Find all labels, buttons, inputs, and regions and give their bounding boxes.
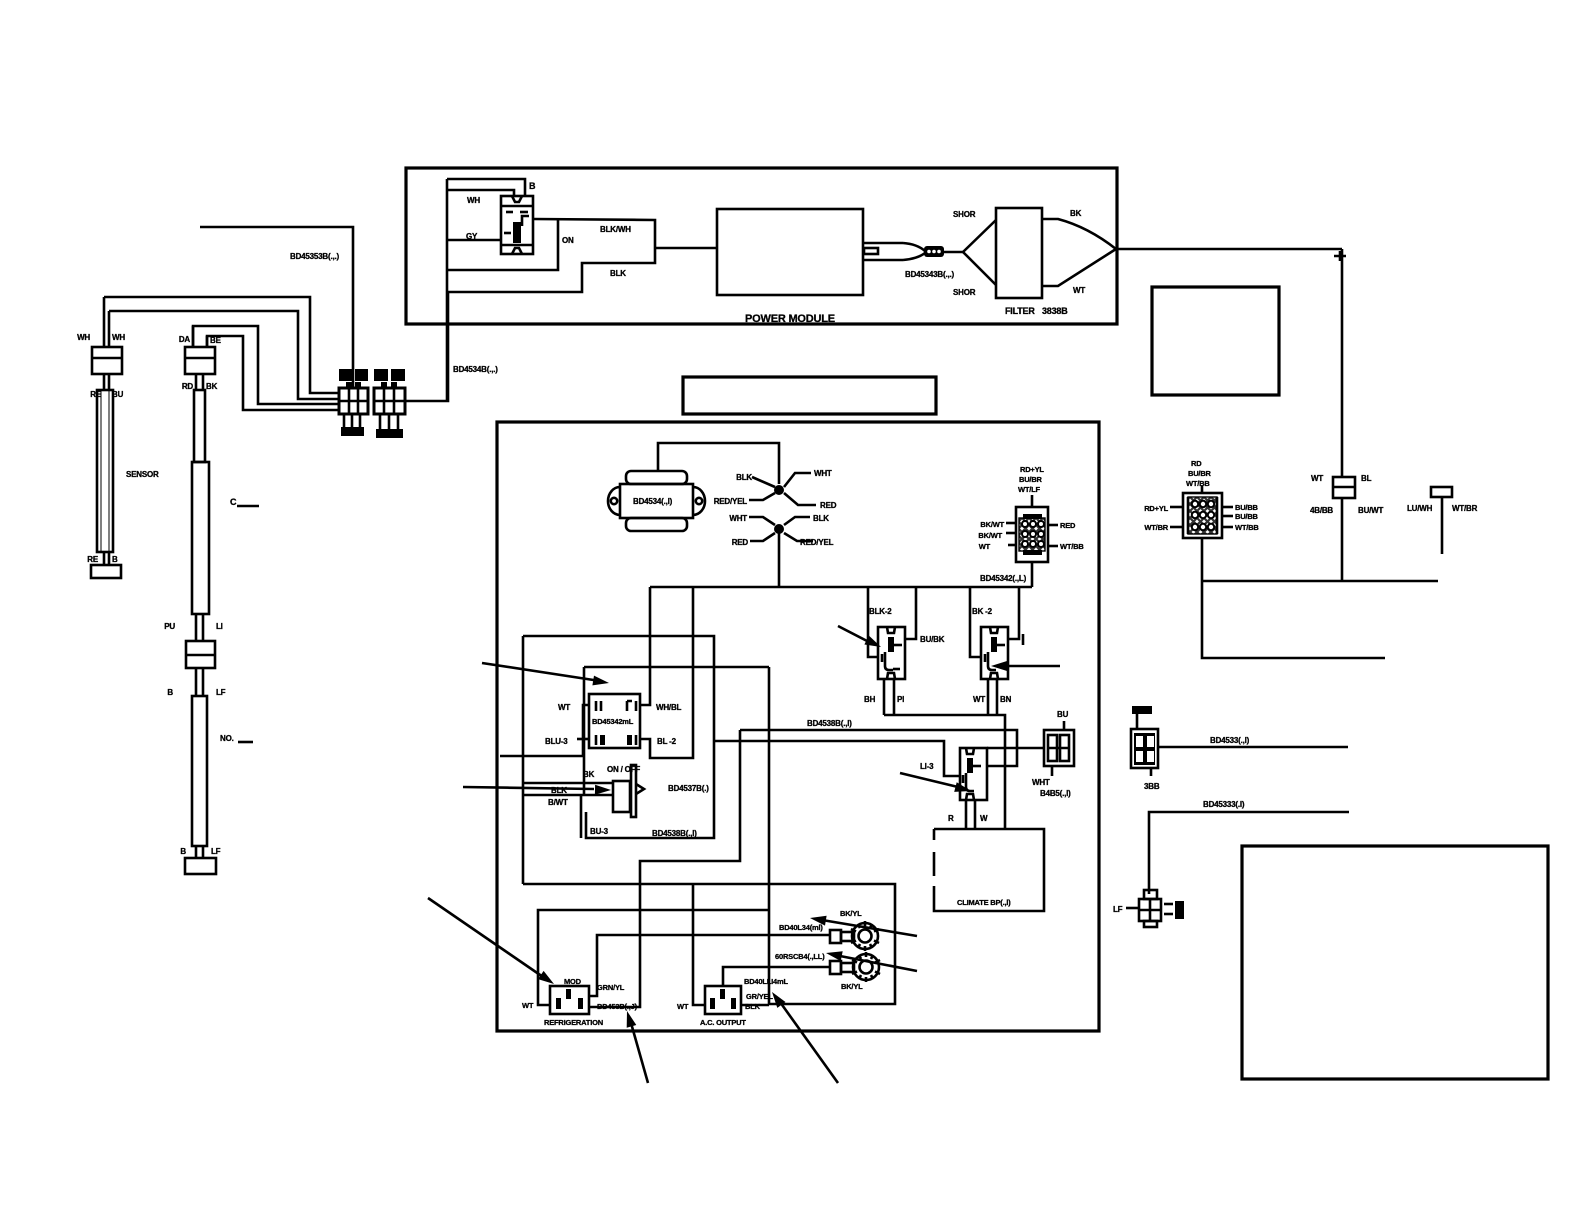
svg-text:LU/WH: LU/WH <box>1407 504 1433 513</box>
svg-text:WT: WT <box>979 542 991 551</box>
splice S1 (wire nuts) <box>749 473 816 505</box>
svg-text:BLK/WH: BLK/WH <box>600 225 631 234</box>
arrow to relay K2 <box>991 661 1060 671</box>
toggle switch SW1 <box>613 765 644 817</box>
wire: from switch loop down <box>768 667 771 1004</box>
svg-text:BD45333(.l): BD45333(.l) <box>1203 800 1245 809</box>
H2 left pins <box>1170 506 1183 509</box>
wire: breaker lower tap <box>447 220 558 270</box>
svg-text:BE: BE <box>210 336 222 345</box>
wire to split <box>944 251 963 254</box>
svg-text:BD45343B(.,.): BD45343B(.,.) <box>905 270 955 279</box>
wire split upper <box>963 220 996 252</box>
wire: feeder vertical inside top box <box>446 179 449 402</box>
svg-text:C: C <box>230 497 237 507</box>
svg-text:BD40L34(ml): BD40L34(ml) <box>779 923 823 932</box>
twin leads bottom <box>195 846 198 858</box>
svg-text:CLIMATE BP(.,l): CLIMATE BP(.,l) <box>957 898 1011 907</box>
svg-text:RED: RED <box>732 538 749 547</box>
svg-text:BLK-2: BLK-2 <box>869 607 892 616</box>
heater connector H2 <box>1183 493 1222 538</box>
wire: relay K3 to connector <box>987 747 1044 750</box>
wire: breaker left feed <box>447 239 501 242</box>
svg-text:RD+YL: RD+YL <box>1144 504 1168 513</box>
connector C5 <box>1131 706 1158 776</box>
svg-text:R: R <box>948 814 954 823</box>
svg-text:60RSCB4(.,LL): 60RSCB4(.,LL) <box>775 952 825 961</box>
wire split lower <box>963 252 996 285</box>
svg-text:BK/WT: BK/WT <box>978 531 1002 540</box>
arrow to outlet O2 labels <box>772 992 838 1083</box>
svg-text:BLK: BLK <box>610 269 626 278</box>
wire: bus to relay K2 right <box>1008 587 1019 639</box>
svg-text:ON / OFF: ON / OFF <box>607 765 640 774</box>
connector J1 body <box>339 388 368 414</box>
svg-text:WT/BB: WT/BB <box>1235 523 1259 532</box>
wire stub <box>1441 497 1444 554</box>
wire stubs above connector <box>192 326 195 347</box>
splice S2 <box>749 517 813 541</box>
thermistor plug P1 <box>92 347 122 374</box>
wire: y667 run <box>584 666 769 669</box>
wire: switch lower bend <box>580 795 583 838</box>
relay K3 pins <box>965 800 968 829</box>
svg-text:WT: WT <box>677 1002 689 1011</box>
wire: bus to relay K1 left <box>868 587 878 657</box>
svg-text:WHT: WHT <box>729 514 747 523</box>
svg-text:W: W <box>980 814 988 823</box>
spare terminal <box>1431 487 1452 497</box>
svg-text:BK/YL: BK/YL <box>840 909 862 918</box>
wire A: chain1 to connector J1 <box>104 297 339 393</box>
J1 pins <box>343 414 346 428</box>
svg-text:BK -2: BK -2 <box>972 607 993 616</box>
heater plug P2 <box>185 347 215 374</box>
svg-text:BD45342(.,L): BD45342(.,L) <box>980 574 1027 583</box>
svg-text:ON: ON <box>562 236 574 245</box>
svg-text:PI: PI <box>897 695 904 704</box>
svg-text:B/WT: B/WT <box>548 798 568 807</box>
svg-text:LF: LF <box>216 688 226 697</box>
wire: C6 left stub <box>1126 907 1139 910</box>
wire: drop to refrigeration outlet <box>588 730 740 1007</box>
svg-text:BH: BH <box>864 695 876 704</box>
arrow to T2 label <box>826 951 917 971</box>
svg-text:B4B5(.,l): B4B5(.,l) <box>1040 789 1071 798</box>
heater left pins <box>1006 522 1016 525</box>
wire: relay module left pins <box>500 705 589 756</box>
svg-text:LI-3: LI-3 <box>920 762 934 771</box>
svg-text:BD4537B(.): BD4537B(.) <box>668 784 709 793</box>
svg-text:RD: RD <box>182 382 194 391</box>
inline connector <box>186 641 215 668</box>
wire: LI-3 run to relay K3 <box>714 741 960 776</box>
wire: breaker top feed 1 <box>447 179 525 196</box>
svg-text:BU/BB: BU/BB <box>1235 512 1259 521</box>
svg-text:BK/WT: BK/WT <box>980 520 1004 529</box>
sensor end cap <box>91 565 121 578</box>
svg-text:GR/YEL: GR/YEL <box>746 992 773 1001</box>
svg-text:PU: PU <box>164 622 175 631</box>
svg-text:BL -2: BL -2 <box>657 737 677 746</box>
svg-text:WT: WT <box>1311 474 1323 483</box>
svg-text:LF: LF <box>1113 905 1123 914</box>
main enclosure box <box>497 422 1099 1031</box>
note rectangle <box>683 377 936 414</box>
filter box FL1 <box>996 208 1042 298</box>
svg-text:BD45353B(.,.): BD45353B(.,.) <box>290 252 340 261</box>
ground bus right <box>1202 580 1438 583</box>
svg-text:BU-3: BU-3 <box>590 827 609 836</box>
svg-text:RED/YEL: RED/YEL <box>800 538 834 547</box>
svg-text:BLU-3: BLU-3 <box>545 737 568 746</box>
heater right pins <box>1048 524 1058 527</box>
sub-box right side <box>523 884 895 1004</box>
heater body upper <box>192 462 209 614</box>
arrow to T1 label <box>810 916 917 936</box>
wire to fuse drop <box>1116 248 1342 251</box>
C6 right pins <box>1164 903 1173 906</box>
svg-text:SHOR: SHOR <box>953 210 976 219</box>
svg-text:B: B <box>529 181 536 191</box>
svg-text:BD4538B(.,l): BD4538B(.,l) <box>807 719 852 728</box>
wire: outlet2 right <box>741 1004 769 1007</box>
stub <box>1201 486 1204 493</box>
wire: outlet2 left feed <box>693 884 705 1005</box>
wire: bus to relay K2 left <box>970 587 981 657</box>
svg-text:RD: RD <box>1191 459 1202 468</box>
relay K2 pins <box>987 679 990 715</box>
wire: outlet1 to terminal T1 <box>589 935 830 996</box>
svg-text:BK/YL: BK/YL <box>841 982 863 991</box>
arrow to relay K3 <box>900 773 971 792</box>
svg-text:DA: DA <box>179 335 191 344</box>
svg-text:BD4533(.,l): BD4533(.,l) <box>1210 736 1250 745</box>
svg-text:WT/BR: WT/BR <box>1452 504 1478 513</box>
large note rectangle bottom right <box>1242 846 1548 1079</box>
svg-text:BU/BR: BU/BR <box>1188 469 1212 478</box>
svg-text:WT: WT <box>973 695 985 704</box>
H2 right pins <box>1222 506 1233 509</box>
svg-text:WT/LF: WT/LF <box>1018 485 1041 494</box>
wire: bus drop via step to relay module pin 4 <box>640 587 693 758</box>
wire: bus drop to relay module pin <box>640 587 650 705</box>
arrow to relay K1 <box>838 626 881 647</box>
svg-text:LF: LF <box>211 847 221 856</box>
connector J2 label bar <box>374 369 388 381</box>
wire B: chain1 to connector J1 <box>109 311 339 399</box>
svg-text:SHOR: SHOR <box>953 288 976 297</box>
svg-text:WH: WH <box>77 333 90 342</box>
svg-text:BD4538B(.,l): BD4538B(.,l) <box>652 829 697 838</box>
arrow to switch <box>463 785 611 795</box>
heater stem <box>194 390 205 462</box>
wire: breaker top feed 2 <box>447 190 514 196</box>
svg-text:BU/BR: BU/BR <box>1019 475 1043 484</box>
wire: connector J2 to top box feeder <box>405 292 448 401</box>
connector J1 label bar <box>339 369 352 381</box>
AC distribution bus <box>650 586 1032 589</box>
J2 bottom label <box>376 429 403 438</box>
terminal T2 <box>830 952 880 982</box>
power module output plug <box>863 243 925 260</box>
stub bottom <box>1051 766 1054 776</box>
wire: transformer to splice 1 <box>658 443 779 484</box>
outlet sub-box <box>538 910 768 1005</box>
wire: bus to relay K1 right <box>905 587 916 639</box>
svg-text:RD+YL: RD+YL <box>1020 465 1044 474</box>
wire: x584 down to switch feed <box>583 667 586 795</box>
J1 bottom label <box>341 427 364 436</box>
svg-text:BU/BK: BU/BK <box>920 635 945 644</box>
twin leads mid <box>195 614 198 641</box>
svg-text:BU/BB: BU/BB <box>1235 503 1259 512</box>
wire C: chain2 to connector J1 <box>193 326 339 404</box>
power module box U100 <box>717 209 863 295</box>
connector J2 body <box>374 388 405 414</box>
wire: drop to fuse <box>1341 249 1344 477</box>
wire: fuse to bus <box>1341 498 1344 581</box>
svg-text:WT: WT <box>558 703 570 712</box>
stub top + label BU <box>1063 721 1066 730</box>
relay K3 <box>960 748 987 800</box>
svg-text:BD45342mL: BD45342mL <box>592 717 634 726</box>
svg-text:RED/YEL: RED/YEL <box>714 497 748 506</box>
svg-text:BL: BL <box>1361 474 1372 483</box>
svg-text:WHT: WHT <box>1032 778 1050 787</box>
sensor tube body <box>97 390 113 552</box>
wire: H2 down and right runs <box>1202 538 1385 658</box>
svg-text:GRN/YL: GRN/YL <box>597 983 625 992</box>
transformer T1 <box>608 471 705 531</box>
twin leads below <box>195 668 198 696</box>
svg-text:3BB: 3BB <box>1144 782 1160 791</box>
wire: second run to C6 <box>1149 812 1349 894</box>
tick <box>1022 634 1025 645</box>
wire: splice 2 to AC bus <box>778 533 781 587</box>
wire D: chain2 to connector J1 <box>207 336 339 410</box>
heater end cap <box>185 858 216 874</box>
svg-text:MOD: MOD <box>564 977 582 986</box>
svg-text:WHT: WHT <box>814 469 832 478</box>
svg-text:4B/BB: 4B/BB <box>1310 506 1333 515</box>
twin leads <box>195 374 198 390</box>
wire loop around relay module <box>523 636 714 838</box>
svg-text:BLK: BLK <box>813 514 829 523</box>
svg-text:RED: RED <box>820 501 837 510</box>
svg-text:RE: RE <box>87 555 99 564</box>
arrow to outlet O1 <box>428 898 554 984</box>
wire: tap to power module input <box>655 247 717 250</box>
heater element tube <box>192 696 207 846</box>
wire: top box to connector J1 top <box>200 227 353 388</box>
twin leads bottom <box>103 552 106 565</box>
connector C4 (2x2) <box>1044 730 1074 766</box>
wire: switch feeds <box>523 782 613 785</box>
J2 pins <box>379 414 382 429</box>
svg-text:3838B: 3838B <box>1042 306 1068 316</box>
svg-text:BK: BK <box>1070 209 1082 218</box>
wire filter out lower <box>1042 249 1116 286</box>
note rectangle top right <box>1152 287 1279 395</box>
svg-text:WH: WH <box>467 196 480 205</box>
svg-text:BU: BU <box>1057 710 1069 719</box>
svg-text:BD40LLI4mL: BD40LLI4mL <box>744 977 788 986</box>
svg-text:WT/BB: WT/BB <box>1186 479 1210 488</box>
wire: breaker output to module <box>447 219 655 292</box>
twin leads <box>103 374 106 390</box>
svg-text:RED: RED <box>1060 521 1076 530</box>
circuit breaker CB1 <box>501 196 533 254</box>
arrow to BD453B label <box>627 1011 648 1083</box>
svg-text:B: B <box>112 555 118 564</box>
svg-text:B: B <box>180 847 186 856</box>
svg-text:WT: WT <box>522 1001 534 1010</box>
refrigeration outlet O1 <box>550 986 589 1014</box>
wire: heater to bus <box>1031 562 1034 587</box>
relay K1 pins <box>883 679 886 715</box>
svg-text:BU/WT: BU/WT <box>1358 506 1384 515</box>
relay K2 <box>981 627 1008 679</box>
svg-text:A.C. OUTPUT: A.C. OUTPUT <box>700 1018 746 1027</box>
svg-text:BN: BN <box>1000 695 1012 704</box>
fuse F1 <box>1333 477 1355 498</box>
svg-text:REFRIGERATION: REFRIGERATION <box>544 1018 603 1027</box>
svg-text:BLK: BLK <box>736 473 752 482</box>
lower distribution wire <box>740 730 1017 766</box>
svg-text:BD453B(.,J): BD453B(.,J) <box>597 1002 638 1011</box>
svg-text:BD4534B(.,.): BD4534B(.,.) <box>453 365 498 374</box>
svg-text:WT/BB: WT/BB <box>1060 542 1084 551</box>
svg-text:LI: LI <box>216 622 223 631</box>
ac output outlet O2 <box>705 986 741 1014</box>
svg-text:NO.: NO. <box>220 734 234 743</box>
svg-text:B: B <box>167 688 173 697</box>
arrow to relay module <box>482 663 609 685</box>
relay module U2 <box>589 694 640 748</box>
wire stub top <box>1031 495 1034 507</box>
svg-text:WH: WH <box>112 333 125 342</box>
wire stubs above connector <box>103 297 106 347</box>
svg-text:BLK: BLK <box>745 1002 761 1011</box>
terminal T1 <box>830 921 879 951</box>
svg-text:WT/BR: WT/BR <box>1144 523 1168 532</box>
plus tick <box>1334 251 1346 261</box>
svg-text:SENSOR: SENSOR <box>126 470 159 479</box>
pin bus under relays <box>884 715 1005 829</box>
enclosure box (generator compartment) <box>406 168 1117 324</box>
svg-text:FILTER: FILTER <box>1005 306 1035 316</box>
climate control box <box>934 829 1044 911</box>
wire filter out upper <box>1042 219 1116 249</box>
svg-text:WH/BL: WH/BL <box>656 703 682 712</box>
svg-text:BK: BK <box>206 382 218 391</box>
wire: outlet2 to terminal T2 <box>723 967 830 986</box>
connector C6 <box>1139 890 1161 927</box>
inline connector (3 pin) <box>924 246 944 257</box>
wire: C5 right run <box>1158 746 1348 749</box>
svg-text:WT: WT <box>1073 286 1085 295</box>
svg-text:POWER MODULE: POWER MODULE <box>745 313 835 325</box>
relay K1 <box>878 627 905 679</box>
heater connector H1 <box>1016 507 1048 562</box>
svg-text:BD4534(.,l): BD4534(.,l) <box>633 497 673 506</box>
